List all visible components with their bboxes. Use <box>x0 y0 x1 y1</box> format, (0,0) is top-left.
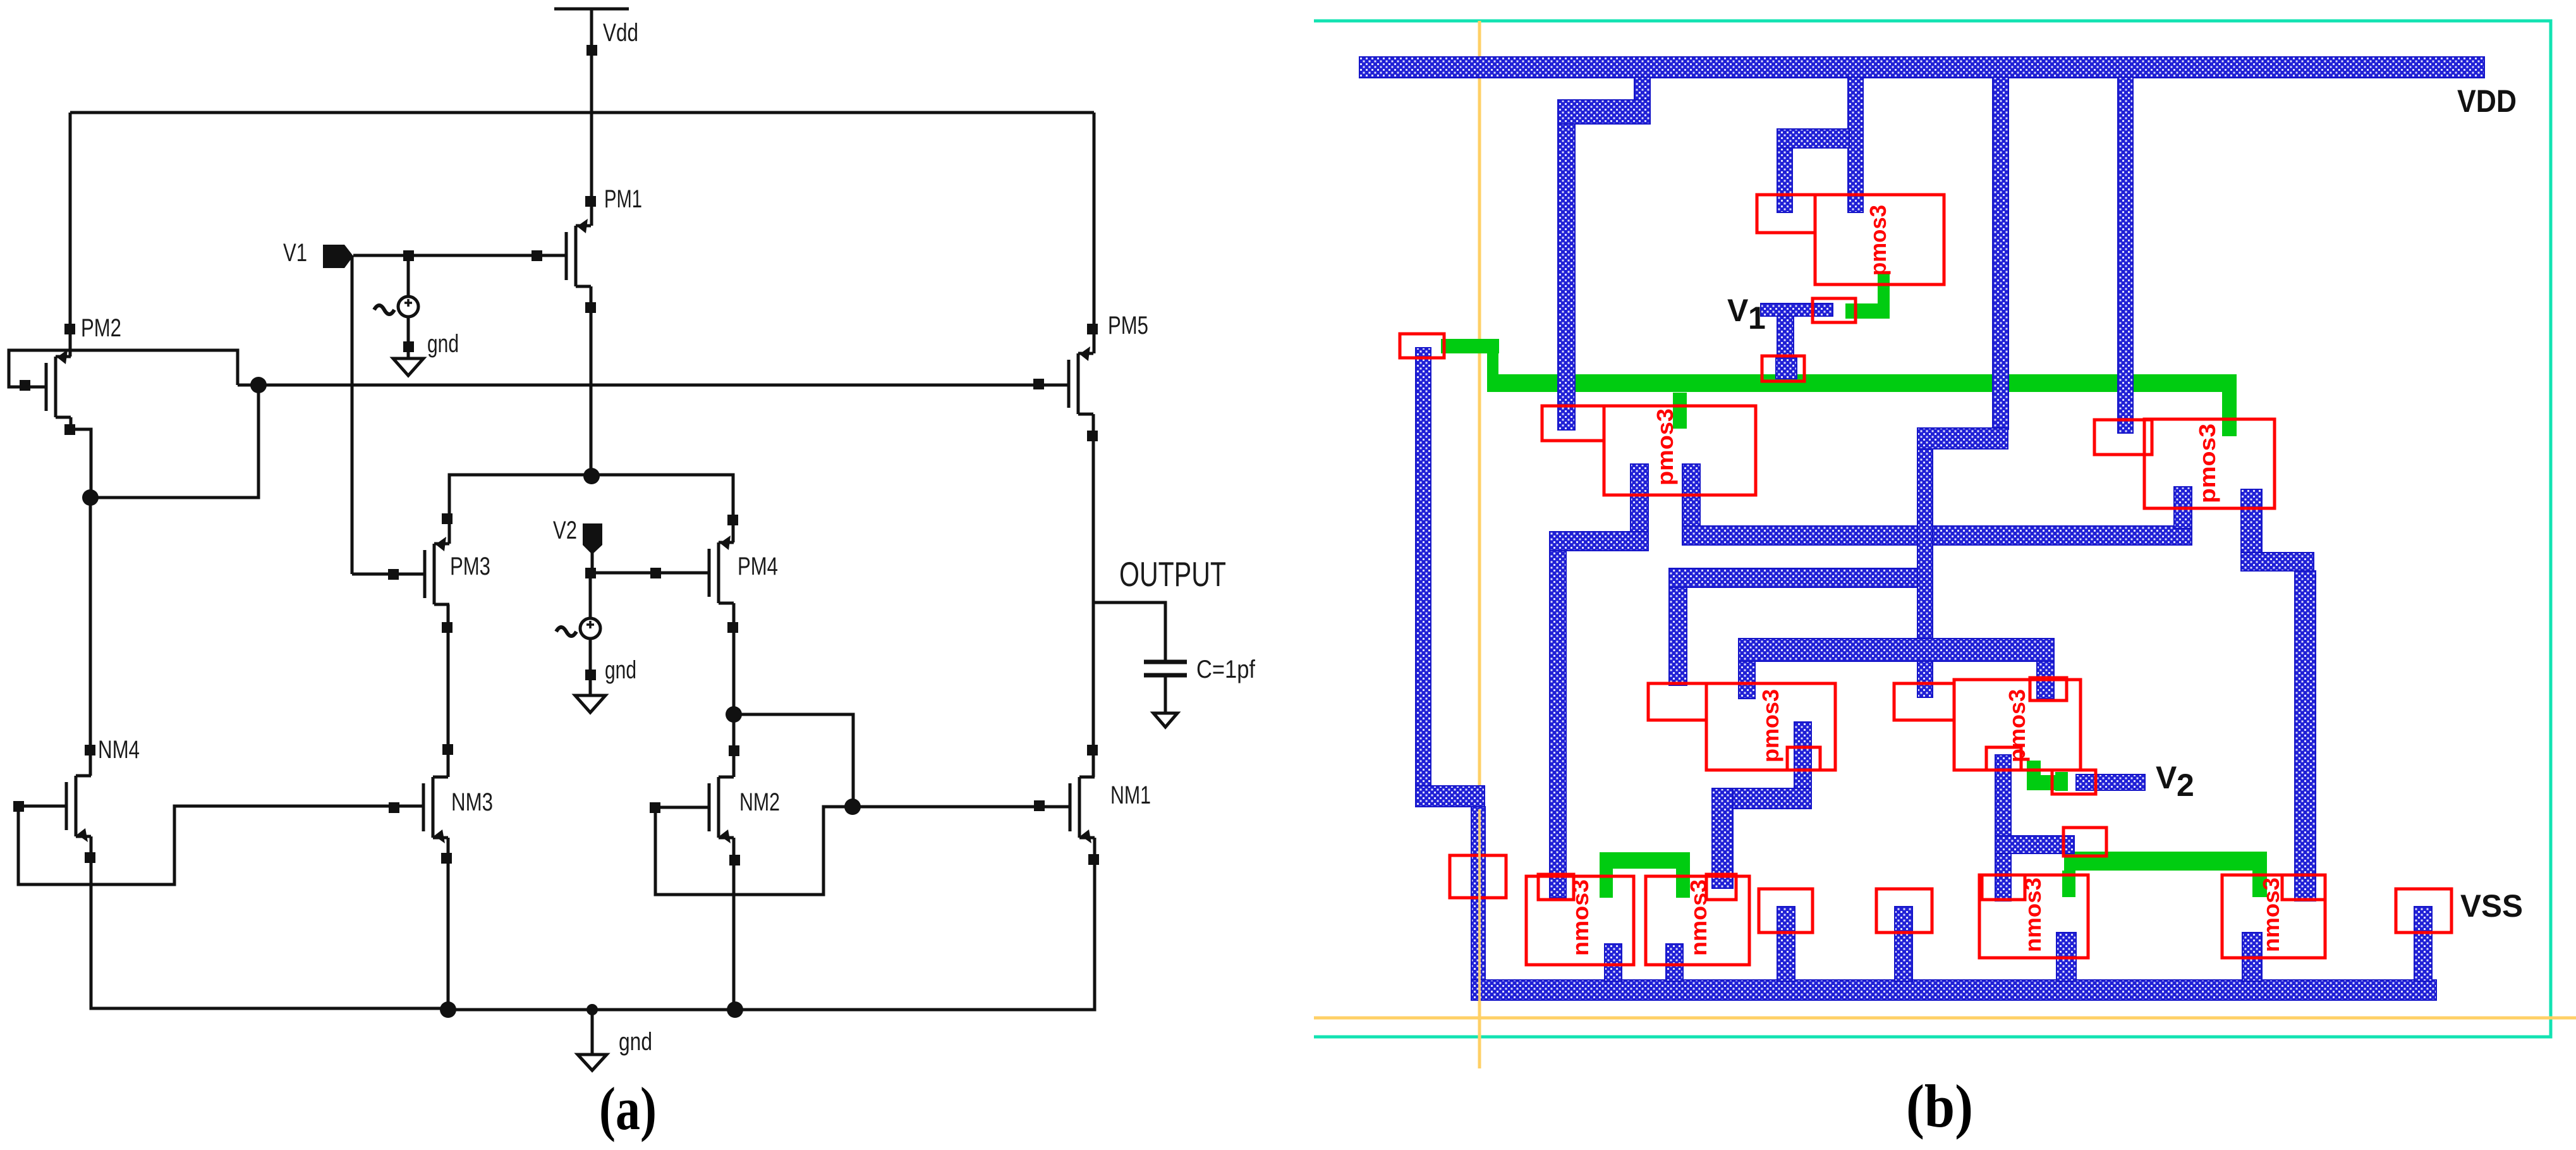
contact left column <box>1450 855 1506 898</box>
contact mirror gate left <box>1400 334 1444 358</box>
poly L PM1 gate <box>1878 273 1890 319</box>
svg-text:pmos3: pmos3 <box>1652 408 1678 486</box>
V1 sine tilde <box>374 305 394 314</box>
schematic labels <box>81 19 1256 1142</box>
svg-text:NM1: NM1 <box>1110 781 1151 809</box>
svg-text:NM3: NM3 <box>451 788 493 816</box>
svg-text:nmos3: nmos3 <box>2258 878 2284 952</box>
svg-text:V: V <box>2156 760 2177 795</box>
metal PM5 drain to NM1 <box>2241 489 2262 569</box>
poly L V2 <box>2027 761 2041 790</box>
layout labels <box>1567 83 2523 1140</box>
svg-text:PM1: PM1 <box>604 185 642 213</box>
svg-text:OUTPUT: OUTPUT <box>1119 554 1226 594</box>
transistor NM4 <box>66 776 91 842</box>
metal VDD bus <box>1359 57 2484 78</box>
ground cap <box>1153 713 1177 727</box>
wire V2 source branch <box>589 573 592 694</box>
metal rail stubs <box>1605 944 1622 981</box>
pmos3 PM3 diffusion <box>1542 406 1604 441</box>
wire PM3 source up and across to PM4 <box>449 475 733 544</box>
svg-text:PM4: PM4 <box>738 553 778 580</box>
metal PM3 right leg <box>1682 464 1700 530</box>
ground V1 <box>393 358 423 376</box>
transistor NM1 <box>1070 777 1095 843</box>
wire mirror gate line to PM5 <box>238 384 1068 387</box>
svg-text:gnd: gnd <box>605 656 636 684</box>
contact NM2 gate <box>2063 828 2106 856</box>
metal central vertical and VDD drop 2 <box>1993 77 2008 429</box>
wire top rail Vdd net <box>70 111 1094 114</box>
wire NM3 source to rail <box>447 838 450 1010</box>
wire PM5 drain from rail <box>1093 113 1096 353</box>
V2 source circle <box>580 618 600 639</box>
wire NM3 drain to PM3 <box>447 604 450 777</box>
metal left mirror column <box>1416 348 1431 786</box>
orange grid vertical line <box>1478 21 1481 1068</box>
wire gnd stub bottom <box>591 1010 594 1053</box>
nmos3 NM1 diffusion <box>2222 875 2325 958</box>
svg-text:NM4: NM4 <box>98 736 140 764</box>
metal PM3 drain jog down to NM4 <box>1631 464 1648 551</box>
wire V1 source branch <box>407 255 410 357</box>
transistor NM3 <box>423 777 448 843</box>
wire PM1 drain down to diff pair node <box>590 286 593 476</box>
wire V2 pin stub <box>591 553 594 573</box>
transistor PM3 <box>425 537 449 604</box>
wire cap to ground <box>1164 677 1167 712</box>
ground V2 <box>575 695 605 713</box>
poly U NM4-NM3 gates <box>1600 852 1690 869</box>
svg-text:VDD: VDD <box>2457 83 2517 119</box>
svg-text:V1: V1 <box>283 239 307 267</box>
svg-text:nmos3: nmos3 <box>1686 879 1711 956</box>
capacitor C1 plates <box>1144 662 1187 675</box>
wire OUTPUT branch <box>1093 603 1165 660</box>
orange grid horizontal line <box>1314 1017 2576 1020</box>
svg-text:(a): (a) <box>599 1075 657 1142</box>
metal PM2 source drop from VDD <box>1634 77 1650 101</box>
metal trace C <box>1739 639 2054 661</box>
metal trace B <box>1669 568 1933 587</box>
input pin V1 <box>323 245 353 268</box>
contact mid rail A <box>1759 889 1813 933</box>
terminal pads <box>13 45 1099 866</box>
metal PM4 drain down to NM2 <box>1995 755 2011 901</box>
svg-text:PM2: PM2 <box>81 314 121 342</box>
wire PM4 drain down to NM2 <box>732 603 736 777</box>
poly gate line V1/mirror (green main) <box>1487 374 2237 392</box>
svg-text:1: 1 <box>1748 300 1766 336</box>
svg-text:(b): (b) <box>1906 1072 1973 1140</box>
svg-text:2: 2 <box>2177 768 2194 803</box>
wire NM2 source to rail <box>732 838 736 1010</box>
wire PM2 source to node and NM4 <box>71 385 258 776</box>
wire NM2 drain node to NM1 gate <box>734 714 1069 807</box>
input pin V2 <box>583 523 602 554</box>
junction dots <box>82 377 861 1018</box>
transistor PM4 <box>709 535 734 603</box>
svg-text:VSS: VSS <box>2460 888 2523 924</box>
pmos3 PM1 diffusion <box>1757 195 1815 233</box>
svg-text:pmos3: pmos3 <box>2194 424 2220 503</box>
svg-text:V2: V2 <box>553 517 577 544</box>
contact V2 <box>2052 770 2096 794</box>
ground main <box>578 1055 607 1070</box>
wire PM2 gate loop <box>9 350 238 387</box>
transistor PM2 <box>46 350 71 417</box>
svg-text:nmos3: nmos3 <box>1567 879 1593 956</box>
metal NM3 drain link <box>1794 722 1811 809</box>
nmos3 NM3 diffusion <box>1646 876 1749 965</box>
metal PM1 source drop from VDD <box>1848 77 1863 212</box>
wire V1 to PM1 gate <box>353 254 566 257</box>
poly stub PM3 gate <box>1673 393 1687 429</box>
wire NM4 gate loop to NM3 gate <box>18 806 423 884</box>
metal VDD drop 3 to PM5 source <box>2118 77 2133 433</box>
svg-text:C=1pf: C=1pf <box>1196 656 1256 683</box>
wire NM2 gate loop <box>655 807 853 895</box>
svg-text:V: V <box>1727 293 1749 328</box>
pmos3 PM2 diffusion <box>1648 683 1706 720</box>
contact VSS <box>2396 889 2451 933</box>
V1 source circle <box>398 297 418 317</box>
svg-text:nmos3: nmos3 <box>2020 878 2046 952</box>
Vdd supply bar <box>554 8 629 11</box>
wire ground rail to NM2 and NM1 <box>448 838 1095 1010</box>
nwell/boundary cyan frame <box>1314 21 2551 1037</box>
wire PM5 source down to NM1 <box>1092 414 1095 777</box>
pmos3 PM5 diffusion <box>2094 420 2152 455</box>
svg-text:gnd: gnd <box>427 330 459 358</box>
wire NM4 source to ground rail <box>91 836 448 1008</box>
poly drop PM5 gate <box>2222 391 2237 436</box>
wire PM2 drain from rail <box>69 113 72 357</box>
wire Vdd vertical to PM1 <box>590 9 593 226</box>
contact V1 lower <box>1762 356 1804 381</box>
svg-text:pmos3: pmos3 <box>1758 689 1783 762</box>
transistor PM5 <box>1069 346 1093 414</box>
nmos3 NM2 diffusion <box>1979 875 2088 958</box>
metal trace A to PM5 drain <box>1682 526 2192 545</box>
metal V1 pad <box>1761 303 1833 316</box>
metal V2 pad <box>2076 774 2145 790</box>
contact V1 gate <box>1813 298 1856 322</box>
metal VSS rail <box>1471 980 2436 1000</box>
svg-text:NM2: NM2 <box>739 788 780 816</box>
contact PM2 drain exit <box>1787 747 1820 770</box>
svg-text:Vdd: Vdd <box>603 19 638 47</box>
transistor NM2 <box>709 777 734 843</box>
orange grid overlay over metal <box>1478 809 1481 1018</box>
transistor PM1 <box>566 219 591 286</box>
nmos3 NM4 diffusion <box>1526 876 1634 965</box>
poly NM2-NM1 gate connector <box>2064 852 2267 871</box>
svg-text:PM3: PM3 <box>450 553 490 580</box>
contact mid rail B <box>1876 889 1932 933</box>
wire V2 pin to PM4 gate <box>590 572 708 575</box>
pmos3 PM4 diffusion <box>1894 683 1954 720</box>
wire V1 down to PM3 gate <box>352 255 424 574</box>
svg-text:pmos3: pmos3 <box>2004 689 2030 762</box>
svg-text:gnd: gnd <box>619 1028 652 1056</box>
contact PM4 drain exit <box>1986 747 2021 770</box>
V2 sine tilde <box>556 627 576 636</box>
svg-text:pmos3: pmos3 <box>1865 205 1891 276</box>
svg-text:PM5: PM5 <box>1108 312 1148 339</box>
